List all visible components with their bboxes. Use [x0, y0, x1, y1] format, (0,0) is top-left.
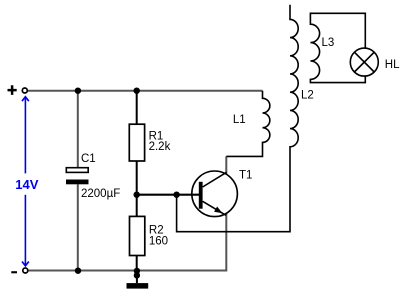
plus sign: [8, 85, 17, 95]
svg-text:2200µF: 2200µF: [81, 188, 120, 200]
wire R1 bottom stub: [136, 161, 138, 195]
svg-text:T1: T1: [239, 170, 252, 182]
wire top rail: [28, 90, 263, 92]
svg-text:14V: 14V: [15, 177, 38, 192]
svg-text:L3: L3: [322, 37, 335, 49]
capacitor C1 bottom plate: [66, 180, 89, 185]
resistor R1: [129, 124, 144, 161]
junction dot base left: [134, 192, 140, 198]
junction dot base right: [173, 192, 179, 198]
junction dot bottom rail C1: [75, 268, 81, 274]
inductor L3 with lamp loop: [310, 13, 365, 82]
wire bottom rail and emitter drop: [28, 214, 226, 271]
svg-text:2.2k: 2.2k: [149, 141, 171, 153]
svg-text:HL: HL: [385, 59, 400, 71]
svg-text:C1: C1: [81, 153, 96, 165]
wire base rail: [137, 194, 199, 196]
svg-text:L2: L2: [301, 89, 314, 101]
lamp HL: [350, 48, 378, 76]
14V dimension arrow: [22, 97, 29, 266]
ground: [136, 271, 138, 284]
terminal + (positive): [22, 88, 27, 93]
junction dot bottom rail R2: [134, 268, 140, 274]
inductor L2 and feedback wire to base: [177, 5, 299, 232]
svg-text:160: 160: [149, 235, 168, 247]
wire R2 bottom stub: [136, 256, 138, 271]
terminal - (negative): [23, 268, 28, 273]
wire collector drop: [225, 156, 227, 174]
inductor L1: [226, 91, 270, 157]
transistor T1: [192, 171, 238, 217]
junction dot top rail R1: [134, 88, 140, 94]
minus sign: [11, 271, 17, 273]
junction dot ground stub: [134, 272, 140, 278]
wire C1 lower branch: [77, 184, 79, 270]
junction dot top rail C1: [75, 88, 81, 94]
capacitor C1 top plate: [66, 168, 88, 173]
wire R1 top stub: [136, 91, 138, 124]
wire C1 upper branch: [77, 91, 79, 168]
resistor R2: [130, 216, 145, 255]
svg-text:L1: L1: [233, 114, 246, 126]
wire R2 top stub: [136, 195, 138, 217]
